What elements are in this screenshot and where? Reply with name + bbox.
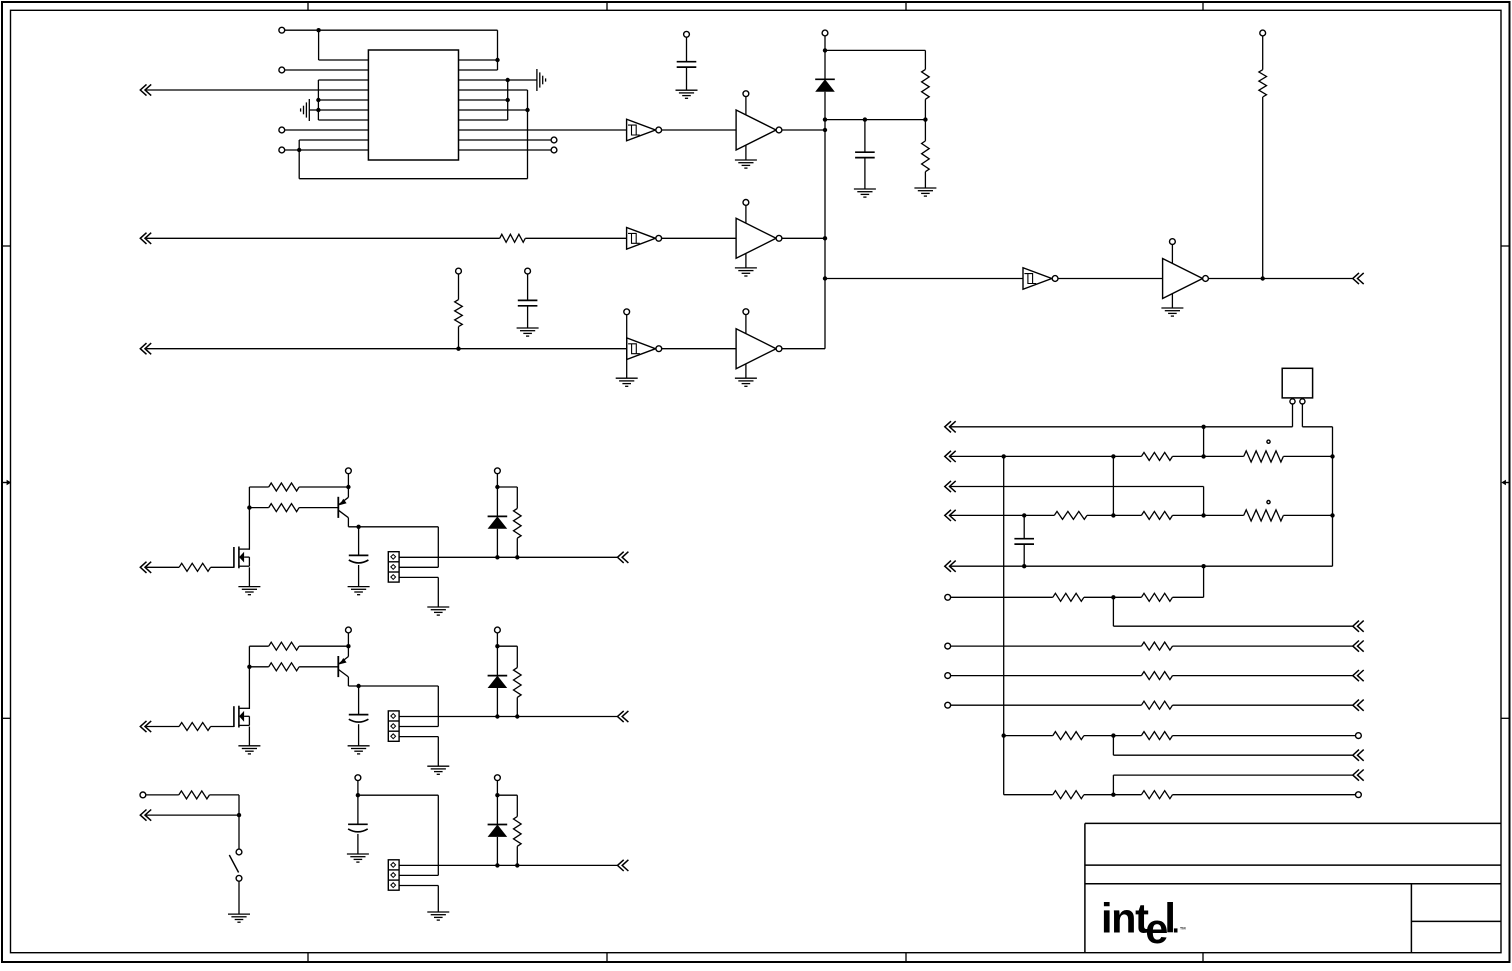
wire: [824, 92, 826, 349]
wire: [238, 881, 240, 914]
terminal P11: [525, 268, 531, 274]
wire: [146, 726, 179, 728]
junction: [863, 117, 867, 121]
wire: [146, 566, 179, 568]
wire cap branch: [1023, 515, 1025, 538]
connector J1: [388, 552, 399, 582]
off-page arrow block3 out: [618, 860, 629, 871]
wire: [146, 794, 179, 796]
wire: [662, 237, 736, 239]
wire: [211, 726, 234, 728]
wire: [1084, 735, 1142, 737]
connector J2: [388, 711, 399, 741]
junction: [823, 48, 827, 52]
wire: [496, 474, 498, 517]
terminal blk2 Vd: [495, 627, 501, 633]
wire: [1173, 794, 1356, 796]
terminal P7: [684, 31, 690, 37]
resistor R26: [1141, 593, 1172, 601]
off-page arrow N16: [1353, 770, 1364, 781]
wire pin3: [399, 886, 438, 913]
transistor Q2b: [338, 656, 348, 677]
Y1 pin 1: [1290, 399, 1295, 404]
IC U1: [368, 50, 458, 160]
resistor R29: [1141, 701, 1172, 709]
wire net row90: [146, 89, 368, 91]
wire U1 pin row120 right: [459, 119, 508, 121]
wire row12: [1004, 794, 1053, 796]
junction: [1002, 733, 1006, 737]
off-page arrow A4: [1353, 273, 1364, 284]
resistor R33: [1141, 791, 1172, 799]
wire: [1173, 455, 1244, 457]
junction: [1261, 276, 1265, 280]
junction: [495, 714, 499, 718]
wire row3: [951, 487, 1204, 516]
off-page arrow block3 in: [140, 810, 151, 821]
connector J3: [388, 860, 399, 890]
junction: [297, 148, 301, 152]
wire xA vertical: [1003, 456, 1005, 794]
wire: [1283, 455, 1332, 457]
wire left bracket vertical: [317, 80, 319, 120]
off-page arrow block2 out: [618, 711, 629, 722]
component Y1 (box): [1282, 368, 1312, 398]
terminal P9: [1260, 30, 1266, 36]
resistor R30: [1053, 732, 1084, 740]
wire row8: [951, 675, 1142, 677]
wire: [399, 527, 438, 568]
resistor R2b: [269, 642, 299, 650]
wire: [299, 486, 348, 488]
wire: [516, 697, 518, 716]
resistor R2a: [179, 723, 211, 731]
junction: [356, 684, 360, 688]
terminal P4: [279, 147, 285, 153]
terminal P6: [551, 147, 557, 153]
terminal P2: [279, 67, 285, 73]
wire: [357, 781, 359, 825]
wire U1 pin row70 right: [459, 69, 498, 71]
capacitor C1: [677, 62, 697, 67]
junction: [495, 644, 499, 648]
wire U1 pin row110 left: [318, 109, 368, 111]
terminal P1: [279, 27, 285, 33]
wire row11: [1113, 775, 1352, 795]
border arrow right: [1501, 480, 1510, 485]
junction: [356, 525, 360, 529]
ground: [348, 746, 370, 754]
capacitor C2: [855, 152, 875, 157]
terminal N14: [1356, 733, 1362, 739]
wire: [319, 30, 369, 60]
junction: [316, 108, 320, 112]
junction: [247, 665, 251, 669]
off-page arrow N15: [1353, 750, 1364, 761]
wire drain: [249, 487, 268, 550]
junction: [1201, 564, 1205, 568]
junction: [823, 276, 827, 280]
wire: [1302, 427, 1332, 566]
junction: [506, 98, 510, 102]
wire: [299, 507, 338, 509]
resistor R31: [1141, 732, 1172, 740]
wire: [1084, 596, 1142, 598]
wire: [516, 538, 518, 557]
wire: [1208, 278, 1352, 280]
wire: [496, 633, 498, 676]
diode D3: [488, 825, 508, 837]
marker: [1267, 440, 1270, 443]
junction: [823, 117, 827, 121]
resistor R21: [1244, 451, 1284, 462]
wire: [1301, 404, 1303, 427]
off-page arrow block1 out: [618, 552, 629, 563]
wire pin3: [399, 577, 438, 607]
junction: [1330, 513, 1334, 517]
terminal N8: [945, 643, 951, 649]
junction: [1201, 513, 1205, 517]
resistor R2c: [269, 663, 299, 671]
resistor R32: [1053, 791, 1084, 799]
buffer U3A: [735, 91, 782, 168]
junction: [515, 863, 519, 867]
border tick right: [1501, 717, 1510, 719]
svg-text:int: int: [1101, 895, 1149, 942]
junction: [823, 128, 827, 132]
wire: [249, 666, 268, 668]
border tick bottom: [606, 953, 608, 962]
junction: [1111, 513, 1115, 517]
wire: [516, 846, 518, 865]
wire: [686, 37, 688, 62]
junction: [456, 347, 460, 351]
terminal blk3 Vd: [495, 775, 501, 781]
terminal N6: [945, 594, 951, 600]
terminal blk3 Vc: [355, 775, 361, 781]
wire: [686, 67, 688, 90]
buffer U3D: [1161, 239, 1208, 316]
junction: [506, 78, 510, 82]
title block: [1085, 823, 1501, 952]
off-page arrow N11: [1353, 670, 1364, 681]
wire U1 pin row80 right: [459, 79, 537, 81]
junction: [316, 28, 320, 32]
ground GND-R: [537, 69, 546, 91]
wire: [924, 120, 926, 141]
capacitor C1p: [349, 555, 369, 563]
wire: [497, 487, 517, 508]
capacitor C3: [518, 300, 538, 305]
off-page arrow N13: [1353, 700, 1364, 711]
wire: [1203, 427, 1205, 457]
terminal P3: [279, 127, 285, 133]
wire: [527, 274, 529, 300]
border tick left: [2, 717, 11, 719]
wire: [358, 527, 360, 556]
wire U1 pin row100 right: [459, 99, 508, 101]
wire: [924, 50, 926, 69]
switch S1 blade: [229, 855, 238, 873]
border tick top: [905, 2, 907, 10]
wire: [347, 474, 349, 498]
junction: [1111, 793, 1115, 797]
schmitt buffer U2D: [1023, 268, 1058, 290]
wire: [285, 69, 369, 71]
ground: [427, 607, 449, 615]
resistor R24: [1244, 510, 1284, 521]
resistor R3a: [179, 791, 210, 799]
wire pin3: [399, 737, 438, 767]
junction: [515, 714, 519, 718]
capacitor C6: [348, 824, 368, 832]
buffer U3B: [735, 200, 782, 277]
wire xC vertical: [1112, 456, 1114, 515]
wire: [507, 80, 509, 120]
resistor R20: [1141, 452, 1172, 460]
capacitor C7: [1014, 539, 1034, 544]
ground: [616, 378, 638, 386]
wire: [497, 795, 517, 816]
wire: [358, 565, 360, 587]
wire: [1173, 675, 1353, 677]
resistor R5: [455, 300, 463, 327]
off-page arrow N5: [945, 561, 956, 572]
junction: [1002, 454, 1006, 458]
wire U1 pin row120 left: [318, 119, 368, 121]
off-page arrow block2: [140, 721, 151, 732]
off-page arrow N4: [945, 510, 956, 521]
junction: [495, 863, 499, 867]
wire row7: [951, 645, 1142, 647]
wire: [496, 781, 498, 825]
off-page arrow N9: [1353, 641, 1364, 652]
schmitt buffer U2A: [627, 119, 662, 141]
resistor R22: [1054, 511, 1087, 519]
resistor R1c: [269, 504, 299, 512]
border tick bottom: [307, 953, 309, 962]
off-page arrow block1: [140, 562, 151, 573]
wire row6: [951, 596, 1053, 598]
junction: [495, 793, 499, 797]
ground: [676, 90, 698, 98]
intel logo: [1101, 895, 1186, 952]
wire: [285, 129, 369, 131]
ground: [347, 854, 369, 862]
resistor R1a: [179, 563, 211, 571]
diode D1: [488, 516, 508, 528]
border tick top: [1202, 2, 1204, 10]
resistor R23: [1141, 511, 1172, 519]
wire row1: [951, 426, 1293, 428]
wire: [864, 120, 866, 153]
wire row2: [951, 455, 1142, 457]
transistor Q2a: [234, 706, 250, 728]
wire jog: [1113, 736, 1352, 756]
junction: [495, 555, 499, 559]
wire U1 pin row150 right: [459, 149, 552, 151]
wire: [285, 149, 369, 151]
border tick top: [606, 2, 608, 10]
wire: [924, 172, 926, 188]
ground: [238, 746, 260, 754]
border arrow left: [2, 480, 11, 485]
wire: [358, 724, 360, 746]
wire: [1058, 278, 1163, 280]
terminal blk2 V+: [346, 627, 352, 633]
terminal N12: [945, 702, 951, 708]
wire: [1292, 404, 1294, 427]
wire: [825, 278, 1023, 280]
diode D2: [488, 676, 508, 688]
wire row4: [951, 514, 1055, 516]
wire: [299, 645, 348, 647]
svg-text:™: ™: [1180, 927, 1187, 934]
junction: [495, 58, 499, 62]
ground GND-L: [301, 99, 310, 121]
off-page arrow A3: [140, 343, 151, 354]
wire main: [399, 864, 617, 866]
wire: [458, 327, 460, 349]
wire emitter: [348, 518, 438, 527]
wire: [825, 49, 925, 51]
resistor R1d: [514, 508, 522, 538]
resistor R3d: [514, 817, 522, 847]
wire: [527, 306, 529, 328]
wire: [1084, 794, 1142, 796]
resistor R3: [500, 234, 526, 242]
junction: [316, 98, 320, 102]
wire U1 pin row140 left: [299, 140, 368, 179]
border tick bottom: [905, 953, 907, 962]
Y1 pin 2: [1300, 399, 1305, 404]
wire: [146, 348, 627, 350]
wire: [864, 158, 866, 189]
terminal P8: [822, 30, 828, 36]
junction: [346, 485, 350, 489]
off-page arrow N1: [945, 421, 956, 432]
terminal blk3 in: [140, 792, 146, 798]
wire: [358, 686, 360, 715]
wire: [662, 348, 736, 350]
resistor R28: [1141, 672, 1172, 680]
junction: [525, 108, 529, 112]
junction: [1201, 454, 1205, 458]
wire: [782, 237, 825, 239]
border tick left: [2, 245, 11, 247]
border tick bottom: [1202, 953, 1204, 962]
wire: [458, 274, 460, 300]
wire: [146, 237, 500, 239]
wire: [1173, 704, 1353, 706]
wire U1 pin row110 right: [459, 109, 528, 111]
junction: [237, 813, 241, 817]
resistor R1b: [269, 483, 299, 491]
wire: [662, 129, 736, 131]
off-page arrow A1: [140, 84, 151, 95]
wire: [497, 30, 499, 70]
transistor Q1b: [338, 497, 348, 518]
terminal P10: [456, 268, 462, 274]
switch S1 top contact: [236, 849, 242, 855]
terminal blk1 Vd: [495, 468, 501, 474]
off-page arrow N3: [945, 481, 956, 492]
off-page arrow N2: [945, 451, 956, 462]
wire row5: [951, 565, 1333, 567]
wire U1 pin row100 left: [318, 99, 368, 101]
wire jog: [1113, 597, 1352, 626]
resistor R25: [1053, 593, 1084, 601]
wire: [824, 36, 826, 79]
wire: [525, 237, 626, 239]
wire: [210, 795, 240, 849]
wire drain: [249, 646, 268, 709]
terminal P5: [551, 137, 557, 143]
diode D1: [815, 79, 835, 91]
wire row10: [1004, 735, 1053, 737]
schmitt buffer U2C: [627, 338, 662, 360]
wire: [782, 129, 825, 131]
schmitt buffer U2B: [627, 228, 662, 250]
wire: [299, 666, 338, 668]
ground: [348, 587, 370, 595]
wire U1 pin row80 left: [318, 79, 368, 81]
resistor R2: [922, 141, 930, 172]
ground: [517, 328, 539, 336]
wire: [1262, 97, 1264, 279]
wire: [1173, 596, 1204, 598]
capacitor C2p: [349, 715, 369, 723]
wire main: [399, 556, 617, 558]
resistor R2d: [514, 668, 522, 698]
wire net VCC top: [285, 29, 498, 31]
ground: [427, 766, 449, 774]
wire U1 pin row140 right: [459, 139, 552, 141]
off-page arrow A2: [140, 233, 151, 244]
junction: [823, 236, 827, 240]
wire emitter: [348, 677, 438, 686]
junction: [247, 505, 251, 509]
marker: [1267, 501, 1270, 504]
ground: [228, 914, 250, 922]
wire: [1173, 645, 1353, 647]
wire source: [248, 727, 250, 746]
wire: [825, 119, 925, 121]
ground: [854, 189, 876, 197]
wire row9: [951, 704, 1142, 706]
wire: [782, 348, 825, 350]
border tick top: [307, 2, 309, 10]
terminal N17: [1356, 792, 1362, 798]
wire: [626, 315, 628, 379]
junction: [1111, 454, 1115, 458]
terminal P12: [624, 309, 630, 315]
wire: [249, 507, 268, 509]
wire bottom loop: [299, 90, 527, 179]
junction: [1111, 595, 1115, 599]
junction: [1111, 733, 1115, 737]
junction: [346, 644, 350, 648]
wire: [1087, 514, 1141, 516]
junction: [1022, 564, 1026, 568]
wire: [1173, 514, 1244, 516]
wire: [1173, 735, 1356, 737]
wire: [1023, 544, 1025, 566]
wire: [211, 566, 234, 568]
resistor R27: [1141, 642, 1172, 650]
wire: [496, 837, 498, 866]
wire: [358, 795, 438, 875]
